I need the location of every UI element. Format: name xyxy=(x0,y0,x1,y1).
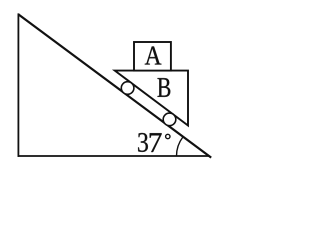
roller 2 xyxy=(163,113,176,126)
label A xyxy=(145,46,162,64)
digit 3 of angle label xyxy=(138,133,148,152)
incline base xyxy=(18,155,210,157)
block B xyxy=(115,71,188,126)
incline hypotenuse xyxy=(18,14,211,157)
label B xyxy=(158,78,171,97)
degree symbol xyxy=(166,134,170,138)
angle arc xyxy=(177,137,183,156)
incline vertical left side xyxy=(17,13,19,157)
roller 1 xyxy=(121,82,134,95)
block A xyxy=(134,42,171,71)
digit 7 of angle label xyxy=(150,133,162,152)
